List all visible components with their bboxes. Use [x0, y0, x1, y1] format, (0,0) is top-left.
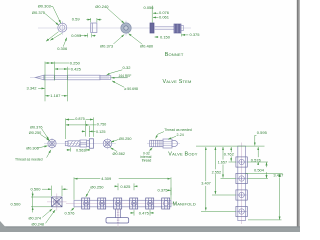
svg-text:Ø0.374: Ø0.374	[29, 217, 41, 221]
svg-text:Bonnet: Bonnet	[165, 52, 184, 58]
svg-text:0.306: 0.306	[57, 46, 68, 51]
svg-text:0.475: 0.475	[139, 211, 150, 216]
svg-text:Ø0.376: Ø0.376	[30, 125, 42, 129]
svg-text:0.504: 0.504	[254, 167, 265, 172]
svg-text:2-24: 2-24	[177, 133, 184, 137]
svg-text:Ø0.302: Ø0.302	[38, 3, 52, 8]
svg-text:Ø0.250: Ø0.250	[90, 184, 104, 189]
svg-text:0-32: 0-32	[123, 65, 132, 70]
svg-text:Ø0.240: Ø0.240	[95, 4, 109, 9]
svg-text:0.875: 0.875	[75, 117, 85, 121]
svg-text:0.093: 0.093	[71, 33, 82, 38]
svg-text:0.150: 0.150	[160, 34, 171, 39]
svg-text:Thread as needed: Thread as needed	[15, 157, 43, 161]
svg-text:Ø0.306: Ø0.306	[26, 147, 38, 151]
svg-text:0.375: 0.375	[158, 188, 169, 193]
svg-text:.164 REF: .164 REF	[118, 74, 132, 78]
svg-text:Ø0.248: Ø0.248	[32, 223, 44, 227]
svg-text:thread: thread	[142, 159, 152, 163]
svg-text:0.576: 0.576	[65, 211, 76, 216]
svg-text:3.342: 3.342	[27, 86, 38, 91]
svg-text:Ø0.562: Ø0.562	[113, 152, 125, 156]
svg-text:0.576: 0.576	[251, 158, 262, 163]
svg-text:0.250: 0.250	[70, 60, 81, 65]
svg-text:Ø0.375: Ø0.375	[32, 10, 46, 15]
svg-text:Ø0.373: Ø0.373	[100, 43, 114, 48]
svg-text:Valve Stem: Valve Stem	[163, 79, 192, 85]
svg-text:Ø0.250: Ø0.250	[119, 137, 131, 141]
svg-text:0.061: 0.061	[159, 15, 170, 20]
svg-text:0.125: 0.125	[96, 130, 106, 134]
svg-text:0.762: 0.762	[224, 152, 235, 157]
svg-text:0.59: 0.59	[72, 16, 81, 21]
svg-text:Thread as needed: Thread as needed	[164, 128, 192, 132]
svg-text:0.425: 0.425	[71, 66, 82, 71]
svg-text:Ø0.480: Ø0.480	[140, 43, 154, 48]
svg-text:⌀ 50.698: ⌀ 50.698	[124, 87, 138, 91]
svg-text:0.056: 0.056	[144, 5, 155, 10]
svg-text:1.187: 1.187	[50, 93, 61, 98]
svg-text:0.375: 0.375	[190, 32, 201, 37]
svg-text:0.563: 0.563	[76, 149, 86, 153]
svg-text:0.595: 0.595	[257, 130, 268, 135]
svg-text:0.625: 0.625	[120, 184, 131, 189]
svg-text:0.500: 0.500	[31, 186, 42, 191]
svg-text:0.500: 0.500	[11, 201, 22, 206]
svg-text:Valve Body: Valve Body	[168, 151, 197, 157]
svg-text:3.467: 3.467	[273, 173, 284, 178]
svg-text:2.552: 2.552	[212, 171, 222, 175]
svg-text:3.407: 3.407	[201, 182, 211, 186]
svg-text:Ø0.250: Ø0.250	[29, 131, 41, 135]
svg-text:1.657: 1.657	[218, 161, 228, 165]
svg-text:Manifold: Manifold	[173, 202, 196, 208]
svg-text:4.309: 4.309	[101, 176, 112, 181]
svg-text:0.750: 0.750	[97, 122, 107, 126]
